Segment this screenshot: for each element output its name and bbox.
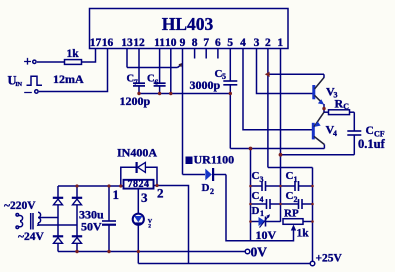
resistor Rc — [324, 111, 329, 113]
bridge left column — [57, 186, 59, 252]
capacitor C4 row — [251, 203, 267, 205]
svg-text:1k: 1k — [67, 48, 80, 60]
svg-text:7: 7 — [134, 78, 138, 87]
svg-text:C: C — [147, 74, 155, 85]
diode IN400A loop — [121, 167, 157, 186]
svg-text:0.1uf: 0.1uf — [358, 137, 386, 151]
wire emitter rail — [230, 148, 324, 150]
svg-text:2: 2 — [157, 186, 164, 201]
node 0V terminal — [245, 249, 250, 254]
svg-text:1: 1 — [294, 175, 298, 184]
capacitor C1 row — [281, 185, 296, 187]
node - terminal — [35, 90, 38, 93]
svg-text:0V: 0V — [251, 245, 268, 260]
svg-text:4: 4 — [333, 129, 337, 138]
svg-text:3: 3 — [141, 190, 148, 205]
wire D2 right down to block — [226, 175, 251, 241]
svg-text:+25V: +25V — [316, 253, 343, 265]
svg-text:D: D — [252, 205, 260, 217]
svg-text:+: + — [24, 55, 32, 70]
svg-text:8: 8 — [192, 37, 198, 49]
svg-text:12mA: 12mA — [53, 72, 84, 86]
pin numbers — [90, 37, 284, 49]
wire pin2 to right rail — [268, 167, 313, 169]
svg-text:1k: 1k — [297, 228, 310, 240]
diode bridge bottom-left — [53, 235, 63, 237]
svg-text:3: 3 — [254, 37, 260, 49]
svg-text:12: 12 — [133, 37, 145, 49]
wire pin5 down — [229, 49, 231, 82]
wire 7824 pin2 right then down to +25V — [154, 186, 189, 264]
svg-text:4: 4 — [260, 195, 264, 204]
node +25V terminal — [310, 261, 315, 266]
svg-text:10V: 10V — [256, 228, 277, 242]
wire RP wiper line — [251, 229, 294, 241]
svg-text:C: C — [127, 74, 135, 85]
svg-text:5: 5 — [222, 72, 226, 81]
wire +25V rail — [138, 263, 310, 265]
transistor V4 — [313, 112, 324, 148]
svg-text:1200p: 1200p — [120, 94, 151, 108]
svg-text:C: C — [343, 102, 349, 111]
regulator U2 7824 box — [124, 180, 154, 189]
bridge right column — [76, 186, 78, 252]
capacitor Ccf — [347, 130, 361, 132]
wire pin10 down — [170, 49, 172, 94]
wire 7824 pin3 down — [137, 189, 139, 214]
LED V2 — [133, 214, 144, 225]
potentiometer RP — [283, 219, 303, 225]
svg-text:RP: RP — [284, 208, 299, 220]
svg-text:IN: IN — [15, 81, 22, 88]
svg-text:5: 5 — [227, 37, 233, 49]
wire top bus — [127, 67, 178, 69]
capacitor C3 row — [251, 185, 263, 187]
wire pin1 down (middle rail) — [280, 49, 282, 222]
wire pin17 down-left to resistor — [82, 49, 96, 63]
svg-text:3: 3 — [260, 175, 264, 184]
wire pin3 down to V3 base — [257, 49, 314, 94]
C block left rail — [250, 149, 252, 241]
label MUR1100 — [186, 157, 193, 165]
op-amp U1 HL403 IC box — [90, 9, 289, 49]
capacitor C7 — [133, 82, 145, 84]
wire diagonal bus to pin 9 wire — [178, 64, 183, 68]
pin 13 tick — [126, 49, 128, 68]
svg-text:D: D — [202, 182, 210, 194]
svg-text:6: 6 — [155, 78, 159, 87]
svg-text:3000p: 3000p — [190, 78, 221, 92]
svg-text:50V: 50V — [81, 220, 102, 234]
node + terminal — [33, 60, 36, 63]
svg-text:R: R — [335, 97, 344, 111]
pin 6 stub — [217, 49, 219, 59]
svg-text:C: C — [252, 190, 260, 202]
wire pin5 continues down to emitter rail — [229, 94, 231, 149]
wire pin2 down — [267, 49, 269, 168]
svg-text:16: 16 — [102, 37, 114, 49]
svg-text:9: 9 — [180, 37, 186, 49]
wire Ccf bottom rail — [281, 154, 355, 156]
diode bridge top-right — [72, 197, 82, 199]
C block right rail — [312, 168, 314, 264]
svg-text:1: 1 — [113, 187, 120, 202]
svg-text:6: 6 — [215, 37, 221, 49]
svg-text:IN400A: IN400A — [117, 146, 157, 160]
svg-text:7824: 7824 — [128, 179, 150, 190]
wire top rail bridge to 7824 pin1 — [58, 185, 124, 187]
RP wiper arrow — [291, 225, 296, 231]
transistor V3 — [314, 74, 324, 112]
transformer T1 — [16, 212, 77, 229]
svg-text:~220V: ~220V — [4, 200, 36, 212]
svg-text:17: 17 — [90, 37, 102, 49]
diode bridge top-left — [53, 197, 63, 199]
capacitor 330u electrolytic — [108, 186, 110, 221]
capacitor C5 — [223, 80, 237, 82]
pin 8 stub — [194, 49, 196, 59]
svg-text:~24V: ~24V — [18, 231, 44, 243]
svg-text:13: 13 — [121, 37, 133, 49]
svg-text:2: 2 — [294, 195, 298, 204]
wire resistor to + terminal — [37, 61, 65, 63]
svg-text:UR1100: UR1100 — [194, 153, 235, 167]
svg-text:C: C — [286, 190, 294, 202]
diode bridge bottom-right — [72, 235, 82, 237]
svg-text:1: 1 — [277, 37, 283, 49]
svg-text:2: 2 — [210, 187, 214, 196]
svg-text:1: 1 — [260, 209, 264, 218]
diode D2 MUR1100 — [183, 174, 206, 176]
svg-text:C: C — [286, 170, 294, 182]
svg-text:–: – — [24, 85, 33, 100]
svg-text:11: 11 — [154, 37, 165, 49]
pin 7 stub — [205, 49, 207, 59]
wire pin4 down to V4 base — [243, 49, 313, 130]
wire V3 collector line — [268, 73, 324, 75]
wire pin9 down to D2 — [182, 49, 184, 175]
svg-text:HL403: HL403 — [162, 14, 214, 34]
wire pin11 down — [159, 49, 161, 84]
wire pin16 down-left to - terminal — [39, 49, 108, 92]
wire pin12 down — [138, 49, 140, 84]
svg-text:2: 2 — [148, 224, 151, 230]
svg-text:C: C — [366, 125, 374, 137]
zener D1 — [251, 221, 259, 223]
capacitor C6 — [154, 82, 166, 84]
wire 0V rail — [58, 251, 246, 253]
svg-text:4: 4 — [240, 37, 246, 49]
pulse waveform symbol — [27, 76, 43, 85]
svg-text:2: 2 — [265, 37, 271, 49]
wire bottom bus — [139, 93, 230, 95]
svg-text:10: 10 — [165, 37, 177, 49]
capacitor C2 row — [281, 203, 299, 205]
svg-text:7: 7 — [203, 37, 209, 49]
resistor R 1k — [65, 60, 82, 65]
svg-text:C: C — [252, 170, 260, 182]
